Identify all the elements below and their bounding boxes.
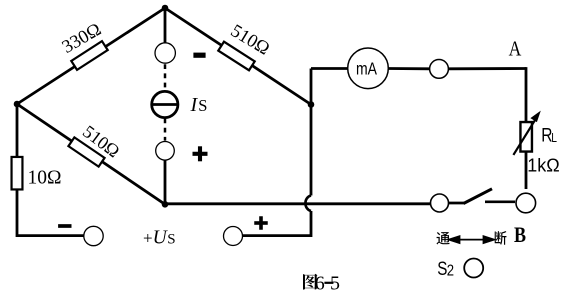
svg-text:6: 6 bbox=[315, 272, 325, 294]
svg-text:+: + bbox=[143, 228, 153, 247]
svg-text:B: B bbox=[514, 224, 526, 248]
svg-text:S: S bbox=[167, 231, 175, 247]
svg-text:I: I bbox=[190, 94, 199, 116]
svg-text:S: S bbox=[198, 96, 207, 115]
svg-text:U: U bbox=[153, 227, 169, 248]
svg-text:1kΩ: 1kΩ bbox=[527, 156, 559, 176]
svg-text:mA: mA bbox=[356, 60, 377, 79]
svg-text:5: 5 bbox=[330, 272, 340, 294]
svg-text:L: L bbox=[551, 132, 557, 145]
svg-text:10Ω: 10Ω bbox=[28, 167, 62, 188]
svg-text:A: A bbox=[509, 38, 522, 61]
svg-text:2: 2 bbox=[447, 262, 454, 279]
svg-text:S: S bbox=[437, 257, 447, 279]
